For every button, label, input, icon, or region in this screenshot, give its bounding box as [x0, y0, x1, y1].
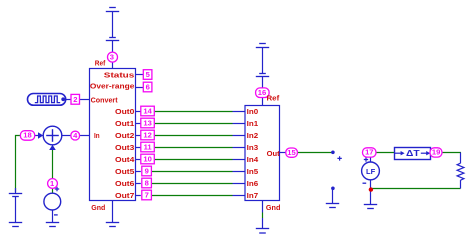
- svg-text:2: 2: [73, 95, 77, 104]
- svg-text:Out5: Out5: [115, 167, 134, 176]
- svg-text:14: 14: [143, 107, 152, 116]
- svg-text:10: 10: [143, 155, 151, 164]
- svg-text:In: In: [94, 131, 100, 140]
- svg-text:In0: In0: [247, 107, 259, 116]
- svg-text:7: 7: [145, 191, 149, 200]
- svg-text:Ref: Ref: [267, 93, 280, 102]
- svg-text:19: 19: [432, 147, 440, 156]
- svg-text:LF: LF: [366, 167, 376, 176]
- svg-text:11: 11: [144, 143, 153, 152]
- svg-text:In3: In3: [247, 143, 259, 152]
- svg-text:Out4: Out4: [115, 155, 134, 164]
- svg-text:Gnd: Gnd: [266, 203, 281, 212]
- svg-text:8: 8: [145, 179, 149, 188]
- svg-text:In5: In5: [247, 167, 259, 176]
- svg-text:Out3: Out3: [115, 143, 134, 152]
- svg-text:16: 16: [258, 88, 266, 97]
- svg-text:12: 12: [143, 131, 151, 140]
- svg-text:Out6: Out6: [115, 179, 134, 188]
- svg-text:Gnd: Gnd: [91, 203, 105, 212]
- svg-text:Status: Status: [104, 70, 135, 79]
- svg-text:Out7: Out7: [115, 191, 134, 200]
- svg-text:6: 6: [146, 83, 150, 92]
- svg-text:In1: In1: [247, 119, 259, 128]
- svg-text:3: 3: [110, 53, 114, 62]
- svg-text:Out2: Out2: [115, 131, 134, 140]
- svg-text:Convert: Convert: [91, 96, 119, 105]
- svg-text:Out: Out: [267, 149, 281, 158]
- svg-text:9: 9: [145, 167, 149, 176]
- svg-text:Out1: Out1: [115, 119, 134, 128]
- svg-text:Over-range: Over-range: [90, 81, 135, 90]
- svg-text:In2: In2: [247, 131, 259, 140]
- svg-text:In7: In7: [247, 191, 259, 200]
- svg-text:Ref: Ref: [95, 59, 106, 68]
- svg-text:In4: In4: [247, 155, 259, 164]
- svg-text:13: 13: [143, 119, 151, 128]
- svg-text:17: 17: [365, 148, 373, 157]
- svg-text:15: 15: [287, 148, 296, 157]
- svg-text:18: 18: [23, 131, 31, 140]
- svg-text:In6: In6: [247, 179, 259, 188]
- svg-text:ΔT: ΔT: [406, 148, 421, 158]
- svg-text:Out0: Out0: [115, 107, 134, 116]
